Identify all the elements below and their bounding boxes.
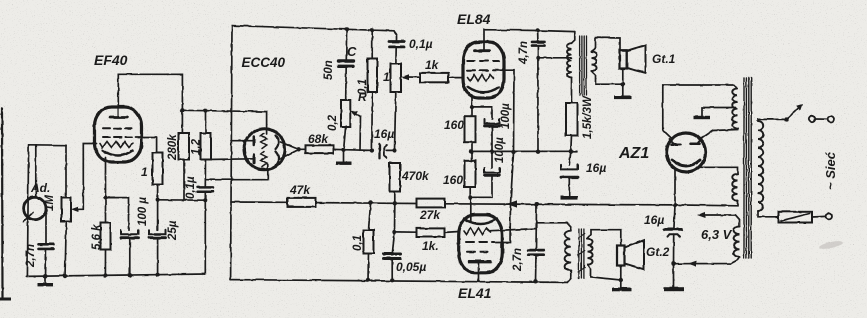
node: 25u junction xyxy=(156,198,160,202)
svg-text:EL41: EL41 xyxy=(458,285,492,301)
resistor 1k (EL41 grid) xyxy=(395,231,417,233)
resistor 1 wiper arrow to 1k xyxy=(408,76,420,78)
wire: branch to 100u no.1 xyxy=(472,107,492,119)
wire: cathodes join to 68k xyxy=(281,142,299,159)
wire: 1k to EL41 grid xyxy=(445,231,460,234)
wire: 0,1 bottom lead xyxy=(367,254,370,280)
node: 0,1 top on rail xyxy=(368,201,372,205)
pickup needle stroke xyxy=(24,212,34,222)
wire: grid branch to ECC40 lower grid xyxy=(205,164,267,180)
resistor 470k xyxy=(390,163,401,192)
resistor 280k xyxy=(179,133,190,160)
wire: 2.7n bottom lead xyxy=(45,249,48,276)
node: 470k bottom on rail xyxy=(393,201,397,205)
svg-text:1: 1 xyxy=(141,165,148,179)
resistor 0,1 (ECC40 top) xyxy=(368,59,378,93)
AZ1 filament arc xyxy=(672,160,700,166)
resistor f (screen feed) xyxy=(153,153,163,185)
svg-text:1M: 1M xyxy=(44,195,56,211)
switch terminal xyxy=(809,116,815,122)
svg-text:1,2: 1,2 xyxy=(191,138,203,155)
PT primary winding xyxy=(758,121,763,211)
wire: screens vertical xyxy=(496,153,514,243)
EF40 anode plate xyxy=(110,116,127,119)
wire: pot bottom to ground bus xyxy=(65,222,66,277)
wire: wiper riser down xyxy=(359,117,362,151)
wire: top feedback line xyxy=(232,26,393,31)
node: EF40 cathode junction xyxy=(103,195,107,199)
wire: 2.7n bottom to rail xyxy=(535,255,538,282)
wire: node to 0.1u ground leg xyxy=(158,199,206,201)
PT core xyxy=(743,78,745,258)
wire: 0,1 top lead xyxy=(371,30,373,58)
wire: B+ rail right segment to AZ1 xyxy=(445,204,676,205)
node: 0,1 resistor tap on top wire xyxy=(370,28,374,32)
resistor 56k (cathode) xyxy=(101,223,111,250)
wire: 1 top to 0.1u cap xyxy=(395,47,397,64)
EL84 control grid zigzag xyxy=(468,75,494,82)
wire: 0.1u top to feedback wire xyxy=(393,31,396,42)
svg-text:47k: 47k xyxy=(289,183,311,197)
OPT2 core xyxy=(578,229,580,279)
wire: 4V winding bottom to B+ node xyxy=(675,201,738,206)
wire: EL41 cathode up xyxy=(470,197,472,221)
EL41 control grid zigzag xyxy=(464,228,491,235)
svg-text:C: C xyxy=(347,44,357,59)
wire: to mains terminal xyxy=(815,118,827,120)
EL84 screen grid (dashed) xyxy=(467,60,499,62)
core hatch marks xyxy=(578,234,585,239)
svg-text:0,1µ: 0,1µ xyxy=(409,37,433,51)
wire: 6.3V top lead with arrow xyxy=(701,215,740,227)
EL41 cathode arc xyxy=(464,219,497,225)
svg-text:50n: 50n xyxy=(323,60,335,80)
wire: B+ rail left segment xyxy=(231,201,288,203)
svg-text:280k: 280k xyxy=(167,134,179,161)
wire: jack top to top wire xyxy=(35,145,37,198)
capacitor 16u (reservoir, electrolytic) xyxy=(674,205,675,229)
wire: 100u no.2 bottom leg xyxy=(471,175,493,197)
node: anode/280k/1,2 junction xyxy=(180,108,184,112)
wire: bottom feedback rail xyxy=(231,280,568,283)
wire: tap to OPT1 winding xyxy=(538,57,572,59)
wire: 100u bottom to bus xyxy=(129,238,131,276)
wire: OPT2 secondary bottom xyxy=(588,265,621,280)
EF40 grid 2 (dashed) xyxy=(103,127,135,129)
capacitor 16u (B+ filter, electrolytic) xyxy=(569,151,571,165)
node: B+ / 16u junction xyxy=(569,149,573,153)
page corner mark (scan artifact) xyxy=(0,298,11,301)
wire: right anode to HV winding bottom xyxy=(701,130,738,140)
resistor 1 (tapped) xyxy=(391,64,402,93)
wire: 160 lower bottom xyxy=(469,187,471,197)
wire: 16u bottom leg xyxy=(673,234,675,264)
wire: 16u right lead xyxy=(387,149,395,151)
wire: 2.7n top lead to jack xyxy=(45,214,47,245)
switch lever xyxy=(787,108,800,120)
wire: OPT2 top feed xyxy=(536,223,571,231)
OPT2 secondary winding xyxy=(588,239,593,265)
node: cathode top junction xyxy=(470,105,474,109)
resistor 1,2 xyxy=(201,133,212,160)
wire: 0,1 top lead xyxy=(369,203,371,230)
capacitor 0.05u xyxy=(392,232,394,254)
svg-text:0,1: 0,1 xyxy=(357,79,369,95)
wire: 1k to EL84 grid xyxy=(449,77,464,79)
capacitor 100u (EF40 cathode bypass, electrolytic) xyxy=(121,230,139,234)
node: tap junction xyxy=(536,56,540,60)
svg-text:AZ1: AZ1 xyxy=(618,145,649,162)
wire: f bottom to node xyxy=(157,185,159,200)
ECC40 grid 2 zigzag xyxy=(261,152,267,167)
svg-text:ECC40: ECC40 xyxy=(242,55,286,70)
wire: 470k bottom to B+ rail xyxy=(394,192,396,204)
fuse xyxy=(779,212,813,223)
wire: 25u bottom to bus xyxy=(157,238,159,275)
wire: anode1 lead to vertical xyxy=(231,140,254,142)
svg-text:5,6 k: 5,6 k xyxy=(91,224,103,250)
svg-text:EF40: EF40 xyxy=(94,52,128,68)
svg-text:470k: 470k xyxy=(401,169,430,183)
HV center tap to ground xyxy=(702,108,736,116)
tube AZ1 envelope xyxy=(667,133,706,172)
speaker Gt.1 xyxy=(620,50,627,68)
node: 50n tap on top wire xyxy=(345,27,349,31)
resistor 1k (EL84 grid stopper) xyxy=(420,73,449,82)
OPT1 core xyxy=(579,36,581,95)
PT HV winding xyxy=(732,89,737,129)
svg-text:100 µ: 100 µ xyxy=(137,197,149,226)
wire: input top horizontal xyxy=(29,144,66,146)
node: B+ output junction xyxy=(673,203,677,207)
wire: 280k bottom down xyxy=(183,160,185,201)
wire: speaker Gt.2 bottom xyxy=(620,266,622,281)
AZ1 anode 2 xyxy=(691,143,700,146)
potentiometer R (0,2) xyxy=(341,100,350,127)
EL41 screen grid (dashed) xyxy=(466,241,494,243)
tube EL41 envelope xyxy=(459,215,503,273)
wire: AZ1 filament down to B+ node xyxy=(674,169,676,205)
node: 0,1 bottom xyxy=(366,278,370,282)
svg-text:160: 160 xyxy=(443,173,463,187)
wire: EF40 anode up and over xyxy=(118,74,182,133)
page edge line (scan artifact) xyxy=(1,108,4,299)
node: 4.7n leg on B+ xyxy=(536,150,540,154)
wire: EF40 cathode down xyxy=(105,158,107,223)
EL41 grid 3 (dashed) xyxy=(467,251,492,253)
tube EF40 envelope xyxy=(95,107,142,162)
svg-text:0,2: 0,2 xyxy=(327,114,339,131)
svg-text:68k: 68k xyxy=(308,132,329,146)
wire: secondary bottom to ground xyxy=(592,71,623,84)
wire: 6.3V bottom lead with arrow xyxy=(674,257,740,263)
svg-text:6,3 V: 6,3 V xyxy=(701,227,733,242)
capacitor 2.7n (EL41 grid) xyxy=(535,204,538,250)
node: heater/ground junction xyxy=(671,262,675,266)
wire: screen exit right and down xyxy=(499,70,514,152)
wire: mid junction cross xyxy=(471,150,492,152)
svg-text:16µ: 16µ xyxy=(374,127,394,141)
junction dots on ground bus xyxy=(43,274,47,278)
EF40 control grid zigzag xyxy=(100,142,133,148)
svg-text:16µ: 16µ xyxy=(586,161,606,175)
node: 0.05u bottom xyxy=(390,278,394,282)
resistor 27k xyxy=(417,199,445,208)
EF40 cathode arc xyxy=(103,151,133,156)
wire: EL41 grid exit right xyxy=(491,229,537,231)
ground bar (16u reservoir) xyxy=(664,287,684,291)
wire: anode2 lead to 1,2/0.1u node xyxy=(206,158,254,161)
resistor 160 (upper) xyxy=(465,116,476,142)
svg-text:25µ: 25µ xyxy=(167,220,179,241)
OPT2 primary winding xyxy=(565,231,571,271)
svg-text:Ad.: Ad. xyxy=(30,181,50,195)
ECC40 cathode 2 arc xyxy=(276,152,279,166)
svg-text:0,1: 0,1 xyxy=(352,235,364,251)
wire: left drop to ground bus xyxy=(27,145,28,277)
svg-text:4,7n: 4,7n xyxy=(518,41,530,65)
wire: B+ rail middle segment xyxy=(316,202,417,205)
OPT1 secondary winding xyxy=(592,52,597,72)
wire: 50n bottom to R pot top xyxy=(345,66,348,100)
wire: B+ rail upper xyxy=(492,150,577,152)
potentiometer 1M xyxy=(62,198,72,222)
PT 4V winding xyxy=(732,174,737,201)
mains terminal circle 2 xyxy=(826,213,832,219)
wire: 0.05u top leg from rail xyxy=(394,203,396,232)
resistor 0,1 (feedback) xyxy=(364,230,374,254)
svg-text:Gt.2: Gt.2 xyxy=(646,245,670,259)
svg-text:0,05µ: 0,05µ xyxy=(396,260,426,274)
wire: EF40 screen exit to resistor f xyxy=(135,137,157,153)
R pot wiper arrow xyxy=(355,113,361,117)
wire: 0.1u bottom down to bus xyxy=(204,192,206,274)
svg-text:2,7n: 2,7n xyxy=(25,244,37,268)
wire: fuse to mains terminal xyxy=(812,215,826,218)
svg-text:2,7n: 2,7n xyxy=(512,248,524,272)
EL84 anode plate xyxy=(475,49,490,52)
tube EL84 envelope xyxy=(463,42,504,98)
wire: 25u top lead xyxy=(157,200,159,231)
EL41 anode plate xyxy=(470,260,491,263)
EL84 grid 3 (dashed) xyxy=(467,69,499,71)
wire: EL84 anode to OPT1 xyxy=(484,30,575,51)
wire: 1.5k bottom to B+ node xyxy=(570,136,573,152)
wire: primary top to switch xyxy=(758,119,787,121)
wire: 100u no.1 bottom xyxy=(491,126,493,151)
svg-text:100µ: 100µ xyxy=(494,137,506,163)
node: 0.1u bottom junction xyxy=(203,198,207,202)
node: cathode junction xyxy=(296,147,300,151)
EF40 grid 3 (dashed) xyxy=(103,136,135,138)
speaker Gt.2 xyxy=(617,246,625,266)
wire: node to 16u xyxy=(344,149,372,152)
capacitor 16u (ECC40 coupling, electrolytic) xyxy=(370,148,374,152)
ground bar (Gt.1) xyxy=(614,96,632,100)
wire: left anode to HV winding top xyxy=(663,85,738,138)
svg-text:160: 160 xyxy=(444,118,464,132)
node: screens tap on rail xyxy=(534,202,538,206)
arrow mark on rail xyxy=(507,200,518,207)
resistor 1.5k/3W xyxy=(566,103,578,136)
wire: OPT1 primary bottom to 1.5k xyxy=(571,77,573,103)
wire: EL84 cathode down xyxy=(471,96,473,117)
ground bar (Gt.2) xyxy=(620,280,622,288)
ground symbol (main) xyxy=(45,276,47,283)
wire: down to ground xyxy=(673,264,675,287)
svg-text:Gt.1: Gt.1 xyxy=(652,52,676,66)
wire: 1 bottom to node xyxy=(395,92,396,150)
ECC40 anode 2 xyxy=(253,155,256,164)
capacitor 0.1u (coupling to ECC40) xyxy=(198,186,214,189)
wire: OPT2 primary bottom to rail xyxy=(567,271,571,283)
PT 6.3V winding xyxy=(734,227,740,257)
ground bus (left) xyxy=(26,274,205,276)
node: 68k/R junction xyxy=(341,148,345,152)
svg-text:27k: 27k xyxy=(419,208,441,222)
capacitor 0.1u (EL84 grid coupling) xyxy=(390,40,405,43)
svg-text:EL84: EL84 xyxy=(457,11,491,27)
capacitor 100u no.1 (electrolytic) xyxy=(485,119,500,124)
wire: 0,1 bottom lead to 16u node xyxy=(371,92,373,150)
svg-text:1: 1 xyxy=(383,70,390,84)
svg-text:0,1µ: 0,1µ xyxy=(185,176,197,199)
ECC40 cathode 1 arc xyxy=(276,136,279,150)
scan smudge artifact xyxy=(819,240,844,251)
wire: filament return to 4V winding xyxy=(699,167,738,174)
svg-text:~ Sieć: ~ Sieć xyxy=(823,151,838,190)
wire: tall feedback vertical xyxy=(231,26,232,280)
node: mid junction right xyxy=(490,149,494,153)
wire: wiper riser to EF40 grid xyxy=(83,144,96,210)
wire: 56k bottom to bus xyxy=(104,250,106,276)
resistor 47k xyxy=(288,198,316,207)
node: EL41 cathode junction xyxy=(468,195,472,199)
svg-text:1,5k/3W: 1,5k/3W xyxy=(582,95,594,139)
node: 16u/1/470k junction xyxy=(392,148,396,152)
node: 2.7n bottom xyxy=(533,279,537,283)
OPT1 primary winding xyxy=(572,32,575,44)
ECC40 grid 1 zigzag xyxy=(261,134,267,149)
ground stub + bar at 68k node xyxy=(343,150,345,162)
capacitor 100u no.2 (electrolytic) xyxy=(491,151,493,168)
resistor 160 (lower) xyxy=(465,161,476,187)
mains terminal circle xyxy=(828,116,834,122)
capacitor 2.7n xyxy=(39,243,54,246)
capacitor 25u (electrolytic) xyxy=(149,230,166,234)
svg-text:100µ: 100µ xyxy=(500,103,512,129)
svg-text:16µ: 16µ xyxy=(644,213,664,227)
wire: 68k right lead xyxy=(334,148,344,150)
pot 1M wiper arrow xyxy=(74,208,83,210)
svg-text:1k.: 1k. xyxy=(422,239,439,253)
capacitor 50n (C) xyxy=(345,29,347,60)
resistor 68k xyxy=(299,148,306,150)
wire: secondary top to speaker xyxy=(592,38,621,52)
wire: 1,2 bottom to 0.1u top xyxy=(204,160,206,187)
pickup input jack Ad. xyxy=(24,197,46,219)
wire: EL41 anode down to rail xyxy=(478,263,480,282)
node: 1k/0.05u junction xyxy=(392,230,396,234)
svg-text:1k: 1k xyxy=(425,58,440,72)
wire: branch to 1,2 resistor and ECC40 anode top xyxy=(182,110,266,134)
wire: 16u bottom xyxy=(568,177,570,196)
node: switch pivot xyxy=(784,117,788,121)
node: screen vertical on B+ xyxy=(511,150,515,154)
node: Gt.2 ground junction xyxy=(619,278,623,282)
wire: primary bottom to fuse xyxy=(758,211,779,217)
ECC40 anode 1 xyxy=(253,137,256,146)
ground bar (16u) xyxy=(561,196,578,200)
AZ1 anode 1 xyxy=(672,144,681,147)
wire: 0.05u bottom lead xyxy=(391,259,393,281)
wire: OPT2 secondary top to speaker xyxy=(588,230,621,246)
wire: cathode to 100u bypass xyxy=(106,198,129,231)
wire: R pot bottom to node xyxy=(344,127,346,150)
tube ECC40 envelope xyxy=(244,129,285,170)
EL84 cathode arc xyxy=(468,87,499,92)
wire: speaker bottom xyxy=(622,69,624,96)
wire: 4.7n bottom down to B+ xyxy=(537,46,539,152)
wire: drop to volume pot top xyxy=(65,145,67,197)
node: mid junction left xyxy=(469,149,473,153)
capacitor 4.7n xyxy=(535,28,539,32)
wire: between 160s xyxy=(471,142,473,161)
